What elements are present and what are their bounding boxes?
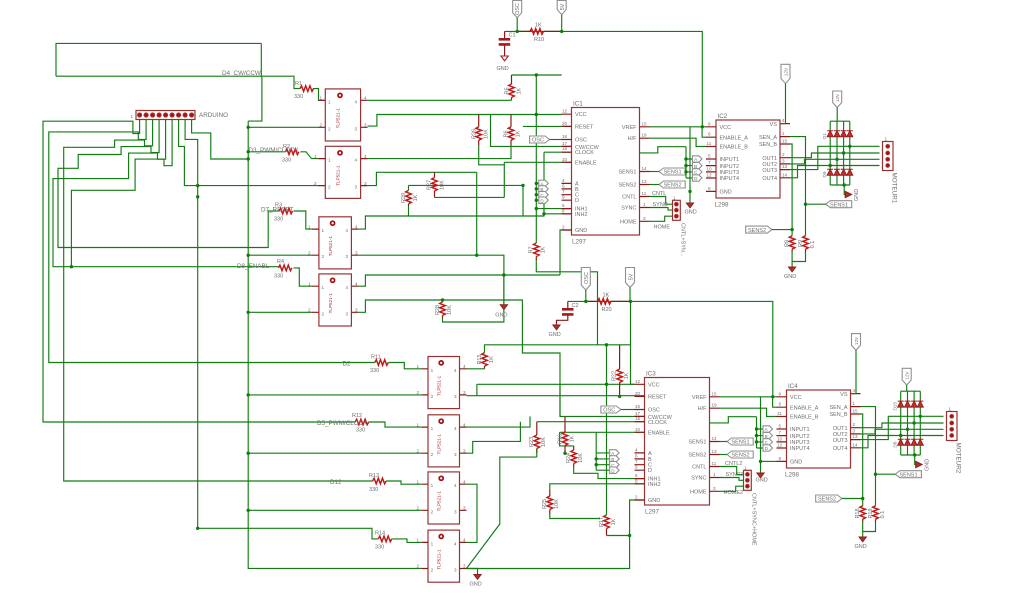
svg-text:MOTEUR2: MOTEUR2 — [955, 443, 962, 474]
flag SENS2 below IC4 — [816, 495, 863, 503]
wire opto5 pin3 to RESET3 — [467, 384, 645, 395]
svg-text:INPUT3: INPUT3 — [720, 170, 740, 176]
svg-text:1K: 1K — [535, 23, 542, 29]
svg-text:H/F: H/F — [628, 136, 638, 142]
wire CLOCK3 side jog — [710, 417, 757, 423]
svg-text:2: 2 — [431, 509, 434, 514]
wire arduino pin7 to opto2 pin2 line — [179, 120, 319, 186]
svg-text:11: 11 — [707, 141, 712, 146]
svg-text:OUT1: OUT1 — [833, 426, 848, 432]
svg-text:D4_CW/CCW: D4_CW/CCW — [222, 70, 261, 77]
svg-text:1: 1 — [431, 483, 434, 488]
svg-text:2: 2 — [308, 308, 311, 313]
svg-text:INPUT2: INPUT2 — [720, 164, 740, 170]
ground GND at IC2 — [685, 127, 697, 216]
wire R17 bottom — [607, 535, 630, 537]
ground GND below R8 — [784, 267, 796, 280]
svg-text:D7_RESET: D7_RESET — [261, 207, 294, 214]
wire opto4 pin4 line — [358, 275, 560, 305]
flag SENS1 at IC1 — [650, 168, 686, 176]
wire ENABLE_A feed — [702, 127, 706, 137]
flag SENS2 at IC1 — [650, 181, 686, 189]
svg-text:INH2: INH2 — [648, 482, 661, 488]
svg-text:R7: R7 — [529, 246, 535, 253]
svg-text:3: 3 — [454, 568, 457, 573]
svg-text:16: 16 — [635, 404, 641, 409]
svg-text:13: 13 — [853, 434, 859, 439]
svg-text:15: 15 — [642, 121, 648, 126]
svg-text:GND: GND — [470, 582, 482, 588]
svg-text:330: 330 — [369, 487, 378, 493]
wire R8 R9 to GND — [792, 252, 805, 267]
svg-text:TLP521-1: TLP521-1 — [437, 434, 442, 455]
resistor R23 10K — [529, 422, 547, 453]
svg-text:2: 2 — [782, 152, 785, 157]
svg-text:2: 2 — [328, 126, 331, 131]
svg-text:R8: R8 — [785, 240, 791, 247]
resistor R10 1K — [517, 23, 562, 44]
svg-text:SENS1: SENS1 — [688, 440, 706, 446]
svg-text:17: 17 — [635, 411, 641, 416]
resistor R7 1K — [529, 243, 547, 260]
svg-text:18: 18 — [635, 416, 641, 421]
svg-text:6: 6 — [779, 402, 782, 407]
resistor R26 10K — [472, 115, 490, 146]
svg-text:SENS2: SENS2 — [688, 453, 706, 459]
svg-text:4: 4 — [463, 538, 466, 543]
svg-text:14: 14 — [782, 172, 788, 177]
ground GND arrow right 2 — [915, 455, 931, 471]
svg-text:1K: 1K — [413, 194, 419, 201]
wire opto6 pin2 line — [248, 452, 421, 454]
svg-text:14: 14 — [642, 166, 648, 171]
wire R29 rails — [409, 185, 524, 216]
wire opto3 pin4 loop — [358, 152, 571, 229]
ground GND at IC4 — [756, 397, 768, 484]
wire net D3 to R2 — [248, 151, 285, 153]
wire opto1 pin2 line — [248, 126, 318, 128]
ground GND below R18 — [855, 537, 867, 550]
svg-text:VREF: VREF — [692, 395, 707, 401]
svg-text:VCC: VCC — [648, 382, 660, 388]
resistor R22 1K — [612, 345, 631, 397]
svg-text:10K: 10K — [578, 453, 584, 463]
svg-text:GND: GND — [648, 498, 660, 504]
wire opto5 pin2 line — [248, 394, 421, 396]
svg-text:SENS2: SENS2 — [818, 497, 836, 503]
svg-text:1: 1 — [308, 224, 311, 229]
svg-text:RESET: RESET — [648, 395, 667, 401]
svg-text:SENS1: SENS1 — [732, 440, 750, 446]
svg-text:4: 4 — [463, 479, 466, 484]
op-amp IC4 L298 — [777, 383, 861, 479]
resistor R6 1K — [504, 115, 522, 146]
svg-text:1: 1 — [131, 114, 134, 119]
svg-text:12V: 12V — [784, 67, 789, 76]
svg-text:1: 1 — [673, 195, 676, 200]
svg-text:D: D — [575, 198, 579, 204]
svg-text:3: 3 — [463, 448, 466, 453]
svg-text:12: 12 — [777, 443, 783, 448]
svg-text:2: 2 — [431, 394, 434, 399]
svg-text:7: 7 — [779, 430, 782, 435]
svg-text:3: 3 — [853, 428, 856, 433]
wire R7 bottom run to bottom half — [536, 260, 597, 345]
svg-text:TLP521-1: TLP521-1 — [437, 375, 442, 396]
svg-text:1K: 1K — [517, 87, 523, 94]
svg-text:IC4: IC4 — [788, 383, 798, 390]
label HOME wire — [650, 216, 673, 231]
svg-text:SENS2: SENS2 — [732, 453, 750, 459]
svg-text:9: 9 — [562, 195, 565, 200]
svg-text:330: 330 — [274, 274, 283, 280]
svg-text:C2: C2 — [572, 303, 579, 309]
svg-text:GND: GND — [756, 478, 768, 484]
svg-text:5: 5 — [779, 424, 782, 429]
svg-text:3: 3 — [713, 486, 716, 491]
svg-text:OSC: OSC — [515, 3, 521, 15]
flag A at IC4 — [763, 426, 773, 432]
wire arduino pin5 net D8 — [53, 120, 278, 267]
wire opto1 pin3 to VCC rail — [368, 115, 562, 127]
svg-text:15: 15 — [712, 391, 718, 396]
svg-text:SENS2: SENS2 — [618, 183, 636, 189]
wire opto3 pin3 line — [358, 255, 504, 305]
svg-text:GND: GND — [790, 460, 802, 466]
wire arduino pin1 net D5 — [43, 120, 355, 423]
svg-text:TLP521-1: TLP521-1 — [336, 108, 341, 129]
svg-text:INH2: INH2 — [575, 212, 588, 218]
diode D9 array — [827, 169, 853, 175]
label CNTL2 wire — [720, 461, 744, 474]
svg-text:CNTL: CNTL — [622, 195, 636, 201]
wire R1 to opto1 pin1 — [313, 89, 325, 101]
svg-text:CLOCK: CLOCK — [648, 420, 667, 426]
svg-text:GND: GND — [720, 190, 732, 196]
svg-text:L298: L298 — [785, 472, 800, 479]
flag 5V top — [557, 1, 566, 15]
svg-text:4: 4 — [355, 99, 358, 104]
svg-text:R22: R22 — [612, 371, 618, 381]
label HOME2 wire — [720, 486, 744, 496]
wire trunk top jog to D4 vertical — [248, 76, 262, 121]
svg-text:5V: 5V — [629, 273, 635, 280]
svg-text:2: 2 — [417, 390, 420, 395]
wire OUT1b to motor2 pin2 — [861, 423, 944, 428]
svg-text:IC1: IC1 — [573, 101, 583, 108]
resistor R19 0.1 — [868, 506, 886, 522]
wire VREF to IC2 VCC — [650, 126, 707, 128]
svg-text:3: 3 — [643, 216, 646, 221]
svg-text:3: 3 — [355, 126, 358, 131]
svg-text:4: 4 — [853, 388, 856, 393]
resistor R12 330 — [352, 413, 369, 434]
wire opto3 pin2 line — [248, 254, 312, 256]
ground GND under C2 — [549, 325, 561, 338]
wire opto7 pin2 line — [248, 509, 421, 511]
wire SEN_B4 down — [861, 414, 863, 506]
svg-text:CNTL+SYN...: CNTL+SYN... — [680, 223, 686, 257]
svg-text:4: 4 — [364, 96, 367, 101]
flag B at IC4 — [763, 432, 773, 438]
svg-text:1K: 1K — [603, 293, 610, 299]
wire IC4 input flag feeds — [757, 417, 764, 448]
svg-text:R28: R28 — [435, 305, 441, 315]
svg-text:R24: R24 — [566, 453, 572, 463]
svg-text:TLP521-1: TLP521-1 — [328, 236, 333, 257]
svg-text:10K: 10K — [440, 180, 446, 190]
svg-text:4: 4 — [463, 364, 466, 369]
resistor R14 330 — [375, 531, 392, 551]
wire HF3 to ENABLE_B4 jog — [720, 408, 777, 416]
svg-text:2: 2 — [314, 181, 317, 186]
svg-text:GND: GND — [854, 189, 860, 201]
wire opto5 pin4 to R15 — [467, 345, 631, 369]
svg-text:TLP521-1: TLP521-1 — [437, 491, 442, 512]
svg-text:HOME: HOME — [620, 219, 637, 225]
wire CLOCK3 line — [537, 421, 645, 423]
svg-text:1: 1 — [744, 465, 747, 470]
svg-text:8: 8 — [562, 208, 565, 213]
wire OUT3 to motor pin1 — [790, 146, 880, 169]
ground GND under C1 — [497, 56, 509, 72]
svg-text:12: 12 — [562, 109, 568, 114]
svg-text:D5_PWM/CLOCK: D5_PWM/CLOCK — [317, 420, 368, 427]
svg-text:HOME2: HOME2 — [724, 490, 744, 496]
flag A at IC2 — [693, 156, 703, 162]
svg-text:4: 4 — [355, 281, 358, 286]
svg-text:3: 3 — [355, 308, 358, 313]
diode D1 array — [827, 131, 853, 137]
svg-text:12: 12 — [707, 173, 713, 178]
svg-text:1: 1 — [322, 285, 325, 290]
flag B — [539, 186, 549, 192]
wire ENABLE_A4 feed — [773, 397, 777, 407]
diode D8 array — [898, 439, 924, 445]
svg-text:VREF: VREF — [622, 125, 637, 131]
svg-text:OUT4: OUT4 — [762, 176, 777, 182]
svg-text:3: 3 — [782, 158, 785, 163]
wire R26 bottom to ENABLE — [479, 145, 572, 165]
wire net 5V top rail — [505, 31, 703, 126]
svg-text:3: 3 — [346, 254, 349, 259]
svg-text:3: 3 — [463, 390, 466, 395]
svg-text:ENABLE_B: ENABLE_B — [720, 145, 749, 151]
svg-text:SENS2: SENS2 — [664, 183, 682, 189]
svg-text:SEN_A: SEN_A — [759, 135, 777, 141]
svg-text:13: 13 — [782, 164, 788, 169]
wire opto4 pin3 line — [358, 300, 560, 416]
svg-text:2: 2 — [320, 123, 323, 128]
flag D at IC4 — [763, 445, 773, 451]
wire arduino pin2 net D2 — [49, 120, 375, 363]
svg-text:3: 3 — [454, 509, 457, 514]
wire R14 to opto8 pin1 — [392, 539, 422, 543]
svg-text:D12: D12 — [330, 479, 342, 486]
svg-text:R15: R15 — [477, 354, 483, 364]
label SYNC2 wire — [720, 472, 744, 480]
wire R18 R19 to GND — [863, 522, 876, 537]
svg-text:INPUT4: INPUT4 — [790, 446, 810, 452]
svg-text:SENS1: SENS1 — [900, 472, 918, 478]
wire 5V flag drop — [561, 15, 563, 32]
svg-text:4: 4 — [454, 426, 457, 431]
svg-text:D3_PWM/CLOCK: D3_PWM/CLOCK — [249, 147, 300, 154]
svg-text:HOME: HOME — [654, 225, 671, 231]
label CNTL wire — [650, 191, 673, 204]
ground GND below opto8 — [467, 569, 482, 588]
svg-text:4: 4 — [463, 422, 466, 427]
wire opto7 pin4 to opto8 pin4 — [467, 484, 478, 542]
op-amp IC2 L298 — [706, 113, 790, 209]
wire RESET line — [523, 125, 572, 127]
svg-text:R23: R23 — [529, 437, 535, 447]
wire opto6 pin4 — [467, 416, 531, 427]
svg-text:INPUT4: INPUT4 — [720, 176, 740, 182]
svg-text:4: 4 — [635, 447, 638, 452]
svg-text:ENABLE_A: ENABLE_A — [790, 405, 819, 411]
wire GND3 under IC3 — [467, 500, 645, 569]
svg-text:3: 3 — [463, 564, 466, 569]
wire CLOCK stub line — [544, 151, 572, 153]
resistor R3 330 — [274, 203, 293, 223]
svg-text:7: 7 — [635, 459, 638, 464]
flag 5V bottom — [626, 268, 635, 302]
wire A B C D flag feeds — [536, 183, 539, 200]
wire R7 feeder vertical — [535, 75, 537, 243]
flag A — [539, 180, 549, 186]
svg-text:R29: R29 — [401, 193, 407, 203]
svg-text:CNTL+SYNC+HOME: CNTL+SYNC+HOME — [751, 493, 757, 546]
svg-text:1: 1 — [643, 202, 646, 207]
svg-text:12V: 12V — [905, 370, 910, 379]
flag SENS1 right — [806, 201, 852, 209]
svg-text:16: 16 — [562, 134, 568, 139]
flag B at IC2 — [693, 162, 703, 168]
wire R27 bottom link — [435, 162, 505, 197]
svg-text:12: 12 — [635, 379, 641, 384]
wire D4 loop right vertical — [260, 43, 262, 76]
svg-text:ARDUINO: ARDUINO — [199, 112, 228, 119]
svg-text:1K: 1K — [570, 435, 576, 442]
flag D — [539, 197, 549, 203]
resistor R25 10K — [542, 490, 560, 514]
flag D bottom — [610, 467, 620, 473]
svg-text:B: B — [765, 434, 768, 439]
svg-text:3: 3 — [364, 123, 367, 128]
wire VREF3 to IC4 VCC — [720, 396, 777, 398]
svg-text:10: 10 — [777, 436, 783, 441]
svg-text:330: 330 — [356, 428, 365, 434]
svg-text:D1: D1 — [822, 133, 827, 139]
svg-text:1K: 1K — [516, 130, 522, 137]
svg-text:1: 1 — [431, 541, 434, 546]
svg-text:VCC: VCC — [575, 112, 587, 118]
svg-text:1: 1 — [713, 472, 716, 477]
svg-text:5V: 5V — [560, 3, 566, 10]
svg-text:OSC: OSC — [584, 272, 590, 284]
svg-text:10: 10 — [707, 166, 713, 171]
svg-text:VS: VS — [840, 392, 848, 398]
wire corner to CW/CCW pin — [491, 115, 572, 147]
svg-text:1: 1 — [328, 99, 331, 104]
svg-text:R9: R9 — [798, 240, 804, 247]
wire arduino pin6 down left — [71, 120, 172, 267]
svg-text:VCC: VCC — [720, 125, 732, 131]
svg-text:13: 13 — [712, 449, 718, 454]
svg-text:10K: 10K — [484, 129, 490, 139]
svg-text:2: 2 — [431, 568, 434, 573]
svg-text:4: 4 — [346, 285, 349, 290]
svg-text:11: 11 — [777, 411, 782, 416]
svg-text:R27: R27 — [427, 180, 433, 190]
svg-text:R11: R11 — [371, 355, 381, 361]
svg-text:CNTL: CNTL — [692, 465, 706, 471]
svg-text:ENABLE_A: ENABLE_A — [720, 135, 749, 141]
svg-text:R10: R10 — [534, 37, 544, 43]
wire opto4 pin2 line — [248, 311, 312, 313]
wire GND2 down — [560, 230, 572, 275]
svg-text:INPUT1: INPUT1 — [720, 157, 740, 163]
wire diode bridge 1 rails — [830, 121, 850, 185]
svg-text:GND: GND — [855, 544, 867, 550]
wire R3 to opto3 pin1 — [294, 211, 312, 229]
svg-text:3: 3 — [454, 452, 457, 457]
resistor R27 10K — [427, 172, 446, 197]
svg-text:2: 2 — [417, 448, 420, 453]
op-amp IC1 L297 — [562, 101, 650, 246]
ground GND arrow right — [844, 185, 860, 201]
flag SENS2 at IC3 — [720, 451, 754, 459]
svg-text:1: 1 — [853, 401, 856, 406]
wire R17 vertical feed — [606, 345, 608, 515]
svg-text:4: 4 — [454, 368, 457, 373]
wire arduino pin8 net R14 feed — [185, 120, 378, 539]
svg-text:18: 18 — [562, 146, 568, 151]
svg-text:TLP521-1: TLP521-1 — [328, 293, 333, 314]
svg-text:330: 330 — [274, 217, 283, 223]
resistor R2 330 — [282, 144, 299, 164]
svg-text:GND: GND — [784, 274, 796, 280]
svg-text:1: 1 — [328, 158, 331, 163]
svg-text:IC3: IC3 — [646, 371, 656, 378]
svg-text:3: 3 — [355, 250, 358, 255]
wire SEN_A down — [790, 137, 806, 236]
wire corner to CW3 — [560, 384, 645, 416]
svg-text:R20: R20 — [602, 307, 612, 313]
flag OSC top — [513, 1, 522, 18]
svg-text:MOTEUR1: MOTEUR1 — [891, 173, 898, 204]
svg-text:1: 1 — [885, 137, 888, 142]
svg-text:L297: L297 — [645, 509, 660, 516]
svg-text:R19: R19 — [868, 508, 874, 518]
wire 5V to VCC3 — [631, 301, 635, 384]
connector CNTL+SYNC+HOME — [673, 195, 686, 257]
flag 12V at diode bridge 1 — [833, 91, 842, 121]
flag SENS1 bottom right — [876, 471, 922, 479]
svg-text:H/F: H/F — [698, 406, 708, 412]
svg-text:R16: R16 — [558, 434, 564, 444]
svg-text:330: 330 — [282, 158, 291, 164]
svg-text:1: 1 — [431, 426, 434, 431]
wire H/F to ENABLE_B jog — [650, 138, 707, 146]
resistor R16 1K — [558, 416, 576, 453]
wire net 5V bottom rail — [568, 301, 773, 396]
flag OSC bottom — [581, 268, 590, 302]
flag C at IC4 — [763, 439, 773, 445]
flag D at IC2 — [693, 175, 703, 181]
svg-text:1K: 1K — [489, 356, 495, 363]
